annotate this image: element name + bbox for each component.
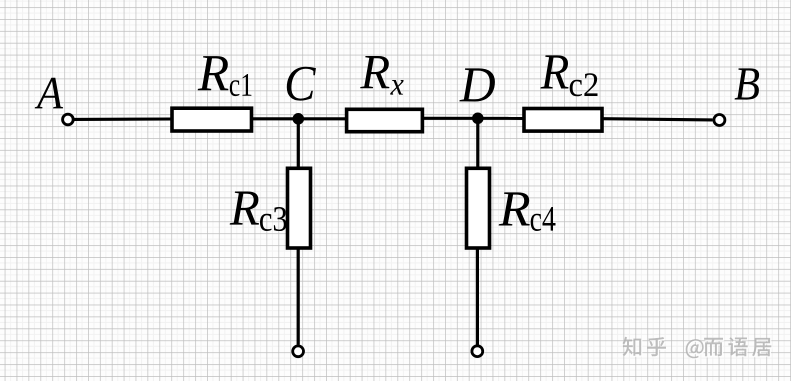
terminal A — [63, 114, 74, 125]
node label C — [287, 67, 316, 101]
bottom terminal under D — [472, 346, 483, 357]
node label A — [35, 78, 63, 109]
wire A to Rc1 — [74, 117, 172, 121]
bottom terminal under C — [293, 346, 304, 357]
wire D down to Rc4 — [476, 118, 479, 168]
wire Rx to Rc2 — [424, 117, 525, 120]
wire Rc4 to bottom terminal — [476, 248, 479, 345]
watermark zhihu — [624, 338, 773, 360]
node label B — [735, 68, 760, 99]
wire Rc3 to bottom terminal — [297, 248, 300, 345]
resistor Rx — [347, 109, 423, 131]
label Rc4 — [499, 192, 556, 231]
junction node C — [293, 113, 305, 125]
resistor Rc1 — [172, 108, 252, 131]
wire C down to Rc3 — [297, 119, 300, 169]
junction node D — [472, 113, 484, 125]
resistor Rc2 — [524, 109, 602, 132]
label Rc2 — [540, 55, 597, 96]
resistor Rc3 — [288, 168, 311, 248]
label Rc3 — [230, 192, 287, 232]
node label D — [459, 68, 495, 101]
label Rc1 — [198, 56, 252, 96]
label Rx — [360, 56, 403, 95]
wire Rc1 to Rx — [252, 117, 346, 120]
terminal B — [714, 115, 725, 126]
resistor Rc4 — [467, 168, 490, 248]
wire Rc2 to B — [602, 119, 713, 120]
